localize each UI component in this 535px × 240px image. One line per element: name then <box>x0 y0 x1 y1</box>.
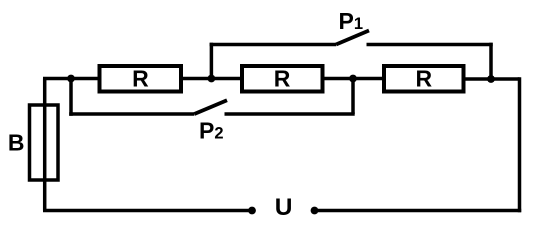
resistor R2 <box>242 66 323 92</box>
wire P1 riser from node A <box>210 43 214 79</box>
wire left vertical (through battery) <box>43 79 47 211</box>
wire R3 to right corner <box>464 77 520 81</box>
battery B <box>30 105 59 180</box>
terminal dot right <box>311 207 319 215</box>
resistor R3 <box>384 66 464 92</box>
wire top-left horizontal <box>43 77 99 81</box>
wire P1 left horizontal <box>210 43 336 47</box>
resistor R1 <box>100 66 182 92</box>
wire right vertical <box>518 77 522 212</box>
svg-text:R: R <box>132 65 149 91</box>
wire P2 riser to node B <box>351 79 355 115</box>
wire bottom right horizontal <box>315 209 522 213</box>
switch P1 blade <box>336 31 369 45</box>
junction dot left <box>67 75 75 83</box>
svg-text:B: B <box>8 130 25 156</box>
svg-text:R: R <box>274 65 291 91</box>
node D junction dot <box>487 75 495 83</box>
node B junction dot <box>349 75 357 83</box>
terminal dot left <box>248 207 256 215</box>
svg-text:R: R <box>415 65 432 91</box>
wire P2 left horizontal <box>69 112 194 116</box>
wire R2 to R3 <box>323 77 385 81</box>
wire R1 to R2 <box>181 77 242 81</box>
wire P2 drop from left junction <box>69 79 73 116</box>
svg-text:U: U <box>275 194 293 221</box>
wire P1 drop to node D <box>489 43 493 79</box>
wire bottom left horizontal <box>43 209 252 213</box>
switch P2 blade <box>194 100 227 114</box>
wire P2 right horizontal <box>225 112 355 116</box>
wire P1 right horizontal <box>367 43 493 47</box>
node A junction dot <box>208 75 216 83</box>
